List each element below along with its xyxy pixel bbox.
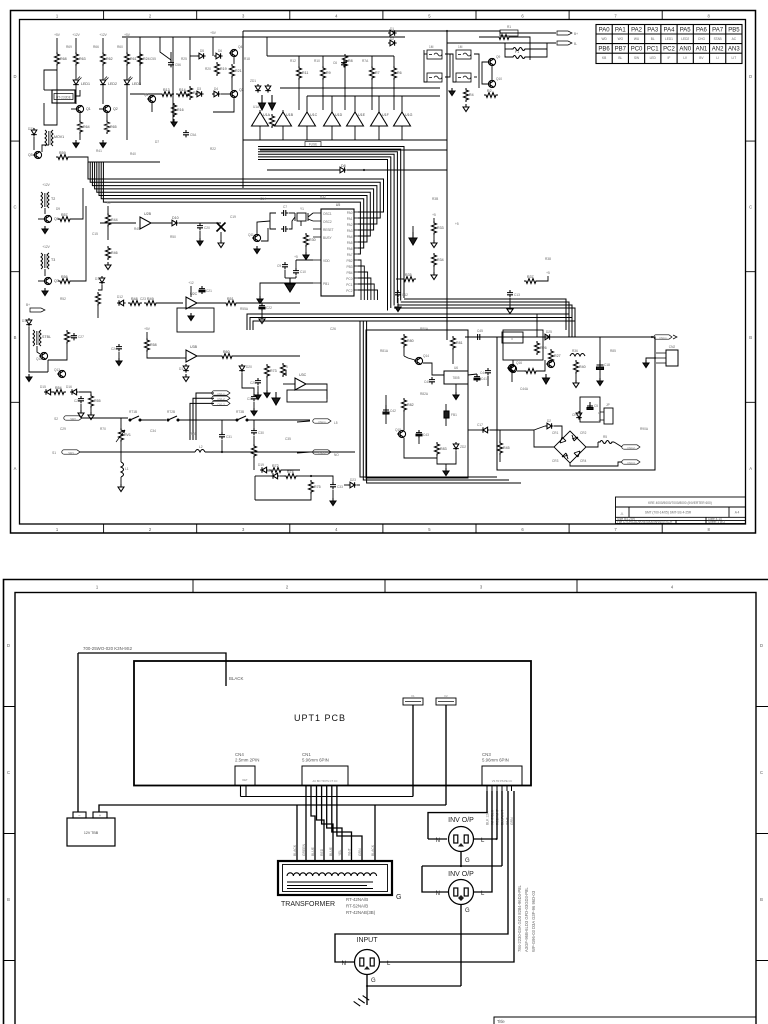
LED D2 bbox=[100, 77, 108, 85]
diode D8 bbox=[338, 167, 347, 173]
svg-text:PA2: PA2 bbox=[631, 28, 643, 34]
wire rail x173 bbox=[172, 37, 174, 125]
resistor R80 vertical bbox=[402, 334, 407, 348]
svg-text:C14: C14 bbox=[260, 197, 266, 201]
capacitor C5A bbox=[183, 130, 189, 137]
svg-text:D19: D19 bbox=[258, 463, 264, 467]
transistor Q1 bbox=[75, 105, 84, 112]
resistor R37 horizontal right bbox=[524, 279, 538, 284]
wire RT3B right bbox=[247, 419, 310, 421]
op-amp U3B bbox=[186, 350, 197, 362]
crystal Y1 bbox=[297, 213, 306, 221]
wire R84 bbox=[499, 430, 501, 441]
svg-text:BLUE: BLUE bbox=[311, 846, 315, 856]
wire U1F input bbox=[378, 96, 380, 113]
svg-text:+5: +5 bbox=[294, 255, 298, 259]
inductor L1 vertical bbox=[121, 462, 124, 477]
capacitor C10 bbox=[293, 268, 299, 275]
wire LED2 to Q2 bbox=[102, 85, 104, 104]
svg-text:D2: D2 bbox=[547, 419, 551, 423]
svg-text:CR4: CR4 bbox=[580, 459, 587, 463]
svg-text:R9: R9 bbox=[326, 71, 331, 75]
wire INV2 L bbox=[474, 791, 492, 892]
wire U2B input left bbox=[100, 222, 136, 224]
svg-text:RT2B: RT2B bbox=[167, 410, 175, 414]
svg-text:LED2: LED2 bbox=[108, 82, 117, 86]
wire crystal loop bbox=[289, 212, 295, 214]
svg-text:+5V: +5V bbox=[210, 31, 217, 35]
resistor R46 vertical bbox=[106, 246, 111, 260]
wire cluster top bbox=[479, 36, 497, 38]
wire +5V rail left bbox=[56, 38, 58, 52]
svg-text:PA0: PA0 bbox=[347, 211, 353, 215]
svg-text:D12: D12 bbox=[117, 295, 123, 299]
svg-text:R37: R37 bbox=[527, 275, 534, 279]
svg-text:PA3: PA3 bbox=[647, 28, 659, 34]
svg-text:NO: NO bbox=[334, 453, 339, 457]
wire Q14 base bbox=[404, 356, 415, 360]
svg-text:7805: 7805 bbox=[452, 376, 459, 380]
svg-text:AN2: AN2 bbox=[712, 47, 724, 53]
connector CN4 box bbox=[235, 766, 255, 786]
wire U2B out bbox=[151, 222, 170, 224]
resistor R47 bbox=[96, 292, 101, 306]
arrow B+ bottom left bbox=[30, 308, 45, 312]
svg-text:R56: R56 bbox=[61, 275, 68, 279]
svg-text:C18: C18 bbox=[604, 363, 610, 367]
transistor Q8 left of row bbox=[147, 95, 156, 102]
resistor R9 bbox=[321, 66, 326, 80]
diode D26 bbox=[545, 423, 554, 429]
wire T3 bottom bbox=[44, 269, 46, 276]
svg-text:L1: L1 bbox=[125, 467, 129, 471]
wire R59 right bbox=[70, 157, 88, 162]
resistor R35 horizontal bbox=[402, 277, 416, 282]
diode D22 bottom bbox=[271, 473, 280, 479]
wire Q8 emitter bbox=[151, 103, 153, 112]
op-amp U2B bbox=[140, 217, 151, 229]
wire box bottom exits bbox=[404, 438, 437, 458]
svg-text:784-2230-03A GD3 8284-96D3-P8: 784-2230-03A GD3 8284-96D3-P8L bbox=[517, 885, 522, 952]
ground open R34 bbox=[431, 272, 437, 280]
svg-text:C45: C45 bbox=[477, 329, 483, 333]
capacitor C27 bbox=[71, 333, 77, 340]
switch RT2B bbox=[167, 416, 179, 421]
resistor R56 bbox=[58, 279, 72, 284]
svg-text:R85: R85 bbox=[610, 349, 616, 353]
svg-text:CN2-1: CN2-1 bbox=[318, 420, 326, 424]
op-amp U1E bbox=[347, 112, 364, 126]
wire U1D output bbox=[331, 126, 333, 140]
svg-text:YEL: YEL bbox=[338, 849, 342, 856]
diode D20 vertical bbox=[239, 364, 245, 373]
resistor R49 horizontal bbox=[144, 301, 158, 306]
resistor R13 bbox=[160, 92, 174, 97]
svg-text:R26: R26 bbox=[540, 346, 547, 350]
transistor Q5 bbox=[33, 151, 42, 158]
connector CN3-1 bbox=[654, 335, 672, 339]
svg-text:R24: R24 bbox=[143, 57, 150, 61]
wire R30 down bbox=[305, 247, 307, 252]
CN4 pins bbox=[240, 786, 242, 797]
svg-text:R45: R45 bbox=[134, 227, 140, 231]
svg-text:INPUT: INPUT bbox=[357, 937, 379, 944]
wire rail x394 bbox=[393, 56, 395, 66]
pill CN3-3 bbox=[622, 460, 640, 464]
svg-text:D8: D8 bbox=[341, 164, 346, 168]
svg-text:C24: C24 bbox=[111, 347, 117, 351]
capacitor C25 bbox=[255, 378, 261, 385]
page 2 title block top sliver bbox=[494, 1017, 756, 1024]
wire U1C output bbox=[306, 126, 308, 140]
svg-text:R58: R58 bbox=[150, 343, 157, 347]
svg-text:RT-42NAB(3B): RT-42NAB(3B) bbox=[346, 910, 376, 915]
svg-text:SW1: SW1 bbox=[68, 451, 74, 455]
diode D4 bbox=[212, 91, 221, 97]
feedback box U2C bbox=[177, 308, 214, 332]
svg-text:PA1: PA1 bbox=[347, 217, 353, 221]
svg-text:D9: D9 bbox=[56, 207, 60, 211]
svg-text:D16: D16 bbox=[66, 385, 72, 389]
capacitor C41 bbox=[474, 374, 480, 382]
svg-text:PA2: PA2 bbox=[347, 223, 353, 227]
varistor MOV2 bbox=[33, 330, 41, 346]
switch RT1B bbox=[129, 416, 141, 421]
svg-text:+12V: +12V bbox=[72, 33, 80, 37]
bus exits to right bbox=[394, 299, 575, 330]
resistor R74 bottom bbox=[284, 474, 298, 479]
svg-text:C44: C44 bbox=[480, 371, 486, 375]
page 1 sheet frame inner bbox=[20, 20, 746, 525]
svg-text:L5: L5 bbox=[334, 421, 338, 425]
transformer outer box bbox=[278, 861, 392, 895]
svg-text:UPT1 PCB: UPT1 PCB bbox=[294, 713, 346, 723]
diode D3 bbox=[195, 91, 204, 97]
transformer core lines bbox=[287, 882, 373, 889]
svg-text:U1A: U1A bbox=[253, 105, 260, 109]
svg-text:PA7: PA7 bbox=[347, 253, 353, 257]
op-amp U1A bbox=[252, 112, 269, 126]
wire INV1 G bbox=[460, 852, 462, 867]
svg-text:R14: R14 bbox=[179, 88, 186, 92]
wire right verticals bbox=[536, 314, 538, 337]
ground osc cluster bbox=[449, 88, 455, 96]
MCU right pin stubs bbox=[354, 212, 358, 290]
transistor Q10 bbox=[487, 80, 496, 87]
svg-text:C5: C5 bbox=[594, 404, 598, 408]
svg-text:WD: WD bbox=[601, 37, 607, 41]
LED D3 bbox=[124, 77, 132, 85]
resistor R53 vertical bbox=[65, 330, 70, 344]
svg-text:C9: C9 bbox=[277, 264, 281, 268]
svg-text:C: C bbox=[7, 770, 10, 775]
svg-text:PB5: PB5 bbox=[728, 28, 740, 34]
regulator U8 box bbox=[502, 332, 523, 343]
ground below PB1 bbox=[257, 296, 263, 304]
svg-text:R5: R5 bbox=[603, 435, 607, 439]
svg-text:R7A: R7A bbox=[362, 59, 369, 63]
svg-text:R11: R11 bbox=[302, 71, 308, 75]
wire INV2 N from G bus bbox=[422, 866, 448, 892]
svg-text:STAB: STAB bbox=[714, 37, 722, 41]
resistor R27 between U1A U1B bbox=[270, 114, 275, 128]
svg-text:R35: R35 bbox=[405, 273, 412, 277]
wire Q7 base bbox=[38, 280, 44, 282]
resistor R58a bbox=[145, 338, 150, 352]
svg-text:Q15: Q15 bbox=[395, 428, 401, 432]
svg-text:CN2-2: CN2-2 bbox=[318, 451, 326, 455]
svg-text:R74: R74 bbox=[287, 470, 294, 474]
svg-text:D: D bbox=[7, 643, 10, 648]
bus lower fan to MCU pins bbox=[358, 260, 378, 300]
wire INPUT L bbox=[380, 791, 514, 962]
svg-text:700-25WO-020 K3N-9S2: 700-25WO-020 K3N-9S2 bbox=[83, 646, 133, 651]
svg-text:BUSY: BUSY bbox=[323, 236, 333, 240]
resistor R59 bbox=[56, 155, 70, 160]
ground below C24 bbox=[116, 358, 122, 366]
resistor R19 vertical bbox=[215, 62, 220, 76]
diode D1 on B+ wire bbox=[388, 30, 397, 36]
wire rail x190 bbox=[189, 37, 191, 80]
fuse F2 pcb bbox=[436, 698, 456, 705]
svg-text:R65: R65 bbox=[110, 125, 117, 129]
pill CN2-1 bbox=[313, 419, 331, 423]
resistor R14 bbox=[176, 92, 190, 97]
page 1 zone tick marks top/bottom bbox=[11, 11, 756, 534]
svg-text:C12: C12 bbox=[402, 293, 408, 297]
wire U1A output bbox=[259, 126, 261, 140]
resistor R66 vert bbox=[281, 363, 286, 377]
svg-text:12V TBB: 12V TBB bbox=[84, 831, 99, 835]
resistor R73 vertical bbox=[265, 364, 270, 378]
CN3 pin stubs bbox=[487, 786, 512, 792]
resistor R3 horizontal bbox=[497, 35, 511, 40]
wire Q9 Q10 join bbox=[491, 66, 493, 80]
svg-text:C34: C34 bbox=[150, 429, 156, 433]
svg-text:BL: BL bbox=[651, 37, 655, 41]
svg-text:+5V: +5V bbox=[105, 201, 112, 205]
wire rail LED2 bbox=[102, 38, 104, 52]
capacitor C13 bbox=[507, 290, 513, 297]
svg-text:R40: R40 bbox=[130, 152, 136, 156]
microcontroller U5 body bbox=[321, 209, 354, 296]
svg-text:R19: R19 bbox=[220, 67, 227, 71]
svg-text:CR6: CR6 bbox=[572, 413, 579, 417]
op-amp U2C bbox=[186, 297, 197, 309]
transistor Q6 bbox=[43, 215, 52, 222]
svg-text:CR3: CR3 bbox=[552, 459, 559, 463]
ground below LED2 bbox=[100, 140, 106, 148]
svg-text:D5: D5 bbox=[200, 49, 204, 53]
svg-text:D14: D14 bbox=[22, 319, 28, 323]
svg-text:R4: R4 bbox=[469, 93, 474, 97]
receptacle INPUT bbox=[355, 950, 380, 975]
wire pin4 down bbox=[501, 791, 503, 866]
resistor R89 vertical bbox=[574, 360, 579, 374]
wire R68 to node bbox=[56, 66, 58, 90]
wire aux bbox=[487, 376, 489, 386]
svg-text:R33: R33 bbox=[437, 226, 444, 230]
wire T2 bottom bbox=[44, 208, 46, 214]
diode D15 bbox=[44, 389, 53, 395]
svg-text:A3GF-96B-6LD3 GFD-03GD3-P8L: A3GF-96B-6LD3 GFD-03GD3-P8L bbox=[524, 887, 529, 952]
svg-text:C55: C55 bbox=[150, 57, 156, 61]
resistor R87 horizontal bbox=[524, 369, 538, 374]
svg-text:U1C: U1C bbox=[310, 113, 318, 117]
svg-text:R20: R20 bbox=[205, 67, 211, 71]
svg-text:CN2: CN2 bbox=[669, 345, 676, 349]
svg-text:Q13: Q13 bbox=[54, 368, 60, 372]
transistor Q13 bbox=[57, 370, 66, 377]
svg-text:S1: S1 bbox=[52, 451, 56, 455]
diode X6 bbox=[348, 482, 357, 488]
wire U1E input bbox=[354, 96, 356, 113]
pill CN3-2 bbox=[622, 445, 640, 449]
resonator box X5 bbox=[456, 73, 471, 82]
svg-text:U1B: U1B bbox=[286, 113, 294, 117]
transistor Q15 bbox=[397, 430, 406, 437]
svg-text:PB7: PB7 bbox=[615, 47, 627, 53]
svg-text:CN3-2: CN3-2 bbox=[627, 446, 635, 450]
op-amp U1C bbox=[299, 112, 316, 126]
wire hline y96 bbox=[307, 95, 440, 97]
svg-text:AN1: AN1 bbox=[696, 47, 708, 53]
battery 12V TBB box bbox=[67, 818, 115, 846]
transistor Q2 bbox=[102, 105, 111, 112]
svg-text:PA3: PA3 bbox=[347, 229, 353, 233]
svg-text:R2: R2 bbox=[487, 89, 492, 93]
wire CN2 gnd bbox=[646, 358, 656, 360]
wire lower power bbox=[437, 451, 456, 464]
ground C25 bbox=[257, 386, 259, 392]
transistor Q17 bbox=[508, 365, 517, 372]
wire r89 bbox=[575, 374, 577, 380]
fuse F1 pcb bbox=[403, 698, 423, 705]
transformer feed wires bbox=[297, 786, 375, 861]
wire to X no-connect bbox=[200, 222, 221, 224]
svg-text:C15: C15 bbox=[92, 232, 98, 236]
capacitor C45 bbox=[475, 334, 482, 340]
resistor R21 bbox=[230, 64, 235, 78]
svg-text:D2: D2 bbox=[390, 37, 394, 41]
svg-text:R55: R55 bbox=[94, 399, 101, 403]
svg-text:R75: R75 bbox=[314, 485, 321, 489]
svg-text:CN1: CN1 bbox=[302, 752, 311, 757]
diode D19 low bbox=[260, 467, 269, 473]
resistor R65 bbox=[105, 120, 110, 134]
varistor MOV1 bbox=[45, 130, 53, 146]
diode D6 bbox=[214, 53, 223, 59]
svg-text:R57: R57 bbox=[61, 213, 68, 217]
svg-text:R68: R68 bbox=[60, 57, 67, 61]
ground below R16 bbox=[171, 119, 177, 127]
svg-text:PA0: PA0 bbox=[599, 28, 611, 34]
ground below Q11 bbox=[254, 246, 260, 254]
resonator box X4 bbox=[427, 73, 442, 82]
wire Q3 down bbox=[213, 98, 234, 112]
resistor R64 bbox=[78, 120, 83, 134]
wire D5 left bbox=[190, 55, 197, 57]
wire U1E output bbox=[354, 126, 356, 140]
svg-text:RESET: RESET bbox=[323, 228, 334, 232]
wire to pill CN3-2 bbox=[614, 442, 622, 447]
diode D2 on B- wire bbox=[388, 40, 397, 46]
svg-text:N: N bbox=[436, 891, 440, 897]
svg-text:R73: R73 bbox=[270, 369, 277, 373]
wire bridge left bbox=[534, 430, 554, 447]
wire relay left bbox=[44, 70, 57, 90]
resistor R51 bbox=[224, 301, 238, 306]
svg-text:N: N bbox=[436, 838, 440, 844]
svg-text:R90A: R90A bbox=[640, 427, 649, 431]
black arrow diode CR8 bbox=[259, 95, 266, 110]
ground below C33 bbox=[330, 498, 336, 506]
wire R37 plus bbox=[538, 276, 548, 281]
svg-text:AC: AC bbox=[732, 37, 737, 41]
svg-text:CN1-2: CN1-2 bbox=[217, 397, 225, 401]
svg-text:Y1: Y1 bbox=[300, 207, 304, 211]
svg-text:D7: D7 bbox=[155, 140, 159, 144]
svg-text:LED1: LED1 bbox=[81, 82, 90, 86]
inductor L2 bbox=[195, 450, 205, 453]
svg-text:CR1: CR1 bbox=[552, 431, 559, 435]
ground below C20 bbox=[197, 238, 203, 246]
LED D1 bbox=[73, 77, 81, 85]
wire R56 to bus bbox=[72, 206, 86, 281]
wire FB1 bbox=[445, 404, 447, 411]
svg-text:R44: R44 bbox=[111, 218, 118, 222]
wire INV2 G down bbox=[460, 905, 462, 987]
wire D10 to C20 bbox=[179, 222, 200, 224]
svg-text:RT-233DE: RT-233DE bbox=[56, 96, 71, 100]
diode D17 bbox=[183, 364, 189, 373]
resistor R81 vertical bbox=[451, 336, 456, 350]
svg-text:G: G bbox=[465, 858, 470, 864]
wire bank bottom rail y140 bbox=[243, 139, 447, 141]
capacitor C32 bbox=[251, 394, 257, 401]
svg-text:R12: R12 bbox=[290, 59, 296, 63]
bus vertical trio to bottom bbox=[360, 321, 521, 483]
capacitor C31 bbox=[219, 432, 225, 439]
fuse F1 second element bbox=[511, 48, 527, 51]
svg-text:5.96mm 6PIN: 5.96mm 6PIN bbox=[482, 758, 509, 763]
svg-text:C41: C41 bbox=[481, 377, 487, 381]
wire U1G input bbox=[401, 96, 403, 113]
svg-text:C17: C17 bbox=[477, 423, 483, 427]
svg-text:CR2: CR2 bbox=[580, 431, 587, 435]
svg-text:+12V: +12V bbox=[99, 33, 107, 37]
svg-text:CN1-3: CN1-3 bbox=[217, 402, 225, 406]
transistor Q14 bbox=[414, 357, 423, 364]
svg-text:R45: R45 bbox=[503, 446, 510, 450]
svg-text:INV O/P: INV O/P bbox=[448, 817, 474, 824]
svg-text:R62: R62 bbox=[106, 57, 113, 61]
svg-text:BLACK: BLACK bbox=[229, 676, 243, 681]
wire L2 right bbox=[205, 451, 355, 453]
wire Q2 base bbox=[99, 108, 103, 110]
wire R80 down bbox=[403, 348, 405, 356]
svg-text:R66: R66 bbox=[93, 45, 99, 49]
svg-text:OSC1: OSC1 bbox=[323, 212, 332, 216]
wire rail x372 bbox=[371, 56, 373, 66]
transformer inner box bbox=[283, 865, 388, 892]
wire hline y88 bbox=[280, 87, 440, 89]
no-connect X mark bbox=[217, 223, 226, 232]
relay box K1 RT-233DE bbox=[52, 90, 75, 103]
svg-text:R60: R60 bbox=[223, 350, 230, 354]
svg-text:AN3: AN3 bbox=[728, 47, 740, 53]
svg-text:PA7: PA7 bbox=[712, 28, 724, 34]
